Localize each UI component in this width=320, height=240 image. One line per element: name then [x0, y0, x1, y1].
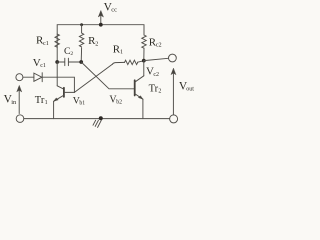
svg-text:c1: c1	[43, 40, 49, 47]
transistor Tr1 emitter lead with arrow	[54, 95, 64, 101]
wire trigger route over to Tr1 base	[57, 77, 74, 92]
svg-text:c2: c2	[153, 72, 159, 78]
wire diode cathode to Vc1 column	[42, 76, 57, 78]
svg-text:c2: c2	[156, 42, 162, 49]
svg-text:Tr: Tr	[35, 95, 45, 106]
wire R1 right to Vc2 node	[138, 61, 144, 62]
wire Rc1 bottom to Vc1 node	[56, 47, 58, 62]
wire cross-coupling node X to Tr2 base (diagonal)	[81, 62, 134, 89]
transistor Tr2 collector lead	[135, 76, 144, 82]
terminal input top circle	[16, 74, 23, 81]
wire Rc2 bottom to Vc2 node	[143, 48, 145, 60]
diode D1	[34, 73, 42, 81]
node junction dot at Vcc tap	[99, 23, 103, 27]
ground symbol	[98, 120, 102, 127]
terminal output bottom circle	[170, 115, 178, 123]
capacitor C2	[64, 58, 66, 65]
transistor Tr2 emitter lead with arrow	[135, 94, 143, 100]
wire bottom ground rail	[24, 118, 170, 120]
node Vc2 junction dot	[142, 59, 146, 63]
svg-text:1: 1	[120, 49, 123, 56]
wire C2 to node X	[69, 61, 81, 63]
terminal input bottom circle	[16, 115, 24, 123]
wire Tr2 emitter to ground rail	[142, 99, 144, 118]
wire Vc1 node to C2	[57, 61, 64, 63]
power Vcc arrow	[100, 14, 102, 25]
wire Vc2 node down to Tr2 collector	[143, 61, 145, 76]
arrow Vin indicator	[18, 89, 20, 114]
resistor R2	[81, 25, 83, 33]
svg-text:c1: c1	[40, 63, 46, 69]
terminal output top circle	[169, 54, 177, 62]
svg-text:2: 2	[70, 51, 73, 57]
svg-text:in: in	[11, 99, 17, 106]
svg-text:2: 2	[158, 89, 161, 95]
resistor Rc1	[55, 34, 59, 47]
transistor Tr2 base bar	[134, 80, 136, 95]
wire Vc2 node to output terminal	[144, 58, 168, 60]
resistor Rc2	[142, 35, 146, 48]
svg-text:2: 2	[95, 40, 98, 47]
node junction dot at ground tap	[99, 116, 103, 120]
svg-text:b1: b1	[79, 101, 85, 107]
resistor R1	[125, 60, 138, 64]
diode input wire from terminal	[23, 76, 34, 78]
svg-text:Tr: Tr	[149, 84, 159, 95]
svg-text:1: 1	[45, 100, 48, 106]
transistor Tr1 base lead	[64, 91, 75, 93]
svg-text:b2: b2	[116, 100, 122, 106]
node Vc1 junction dot	[55, 60, 59, 64]
wire Vc1 node down to Tr1 collector	[56, 62, 58, 86]
wire R2 bottom to node X	[80, 48, 82, 62]
transistor Tr1 collector lead	[57, 86, 64, 89]
transistor Tr1 base bar	[63, 88, 65, 97]
node junction dot at R2 top tap	[80, 23, 83, 26]
wire top supply rail	[57, 25, 144, 47]
svg-text:out: out	[186, 87, 194, 93]
arrow Vout indicator	[172, 71, 174, 114]
wire Tr1 emitter to ground rail	[53, 101, 55, 118]
svg-text:cc: cc	[111, 6, 117, 13]
wire R1 left with corner into cross-coupling	[112, 62, 124, 64]
node X junction dot (R2/C2 to Tr2 base)	[79, 60, 83, 64]
wire cross-coupling R1 to Tr1 base (diagonal)	[74, 64, 112, 92]
